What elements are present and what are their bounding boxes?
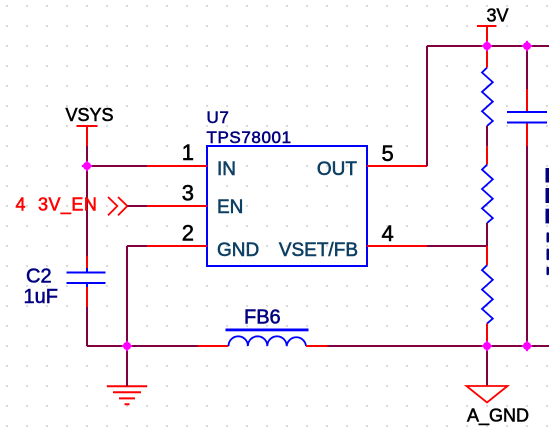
- svg-text:U7: U7: [207, 108, 230, 127]
- junction A_GND rail at resistor: [482, 341, 492, 351]
- pin 5 wire OUT: [367, 165, 427, 167]
- inductor FB6 bar: [226, 329, 309, 332]
- wire VSYS down to C2: [86, 166, 88, 256]
- svg-text:A_GND: A_GND: [467, 406, 529, 427]
- ground symbol: [107, 386, 147, 404]
- capacitor right top lead: [526, 89, 528, 111]
- svg-text:TPS78001: TPS78001: [207, 128, 292, 147]
- wire 3V top rail: [427, 45, 549, 47]
- capacitor C2 plates: [67, 268, 106, 287]
- pin 2 wire GND: [147, 245, 207, 247]
- svg-text:2: 2: [182, 221, 194, 246]
- junction A_GND rail at capacitor: [522, 341, 532, 351]
- inductor FB6 left lead: [198, 345, 229, 347]
- pin 1 wire IN: [147, 165, 207, 167]
- svg-text:3: 3: [182, 181, 194, 206]
- svg-text:3V: 3V: [487, 6, 509, 26]
- svg-text:FB6: FB6: [244, 307, 281, 329]
- wire resistor middle to VSET tap: [486, 223, 488, 246]
- wire A_GND stub: [486, 346, 488, 386]
- inductor FB6 coils: [229, 336, 307, 346]
- svg-text:4: 4: [16, 195, 26, 215]
- resistor bottom top lead: [486, 246, 488, 265]
- capacitor C2 leads: [86, 256, 88, 307]
- junction 3V at capacitor: [522, 41, 532, 51]
- capacitor right plates: [507, 112, 547, 123]
- wire ground stub: [126, 346, 128, 386]
- resistor zigzag lower: [482, 265, 493, 323]
- power symbol 3V bar: [477, 26, 497, 46]
- svg-text:1: 1: [182, 140, 194, 165]
- wire VSYS vertical: [86, 146, 88, 166]
- wire bottom-right rail: [328, 345, 549, 347]
- sheet entry chevrons: [108, 197, 127, 215]
- pin 3 wire EN: [147, 205, 207, 207]
- power symbol VSYS bar: [77, 125, 98, 146]
- svg-text:C2: C2: [26, 266, 52, 288]
- wire GND pin to left: [127, 245, 147, 247]
- svg-text:5: 5: [382, 141, 394, 166]
- wire C2 bottom down: [86, 307, 88, 346]
- resistor zigzag upper: [482, 68, 493, 126]
- svg-text:GND: GND: [217, 240, 259, 261]
- resistor top lead: [486, 46, 488, 68]
- capacitor right bottom lead: [526, 124, 528, 147]
- wire between resistors: [486, 126, 488, 146]
- svg-text:4: 4: [382, 221, 394, 246]
- wire OUT vertical: [426, 46, 428, 166]
- wire capacitor drop from 3V rail: [526, 46, 528, 89]
- svg-text:EN: EN: [217, 197, 243, 218]
- resistor zigzag middle: [482, 165, 493, 223]
- inductor FB6 right lead: [306, 345, 328, 347]
- svg-text:VSET/FB: VSET/FB: [279, 240, 358, 261]
- svg-text:VSYS: VSYS: [66, 105, 114, 125]
- ground symbol A_GND triangle: [467, 386, 508, 403]
- junction 3V at resistor: [482, 41, 492, 51]
- junction at VSYS node: [82, 161, 92, 171]
- svg-text:3V_EN: 3V_EN: [38, 195, 97, 216]
- svg-text:IN: IN: [217, 159, 236, 180]
- wire capacitor to bottom rail: [526, 146, 528, 346]
- clipped text right edge: [546, 168, 549, 275]
- resistor bottom lead: [486, 324, 488, 347]
- svg-text:1uF: 1uF: [24, 286, 58, 308]
- wire bottom-left rail: [87, 345, 198, 347]
- svg-text:OUT: OUT: [317, 159, 358, 180]
- wire VSYS to pin IN: [87, 165, 147, 167]
- resistor middle top lead: [486, 146, 488, 164]
- wire EN: [127, 205, 147, 207]
- pin 4 wire VSET/FB: [367, 245, 427, 247]
- wire GND down: [126, 246, 128, 346]
- junction at GND rail: [122, 341, 132, 351]
- IC U7 body: [207, 146, 367, 266]
- wire VSET/FB to divider: [427, 245, 487, 247]
